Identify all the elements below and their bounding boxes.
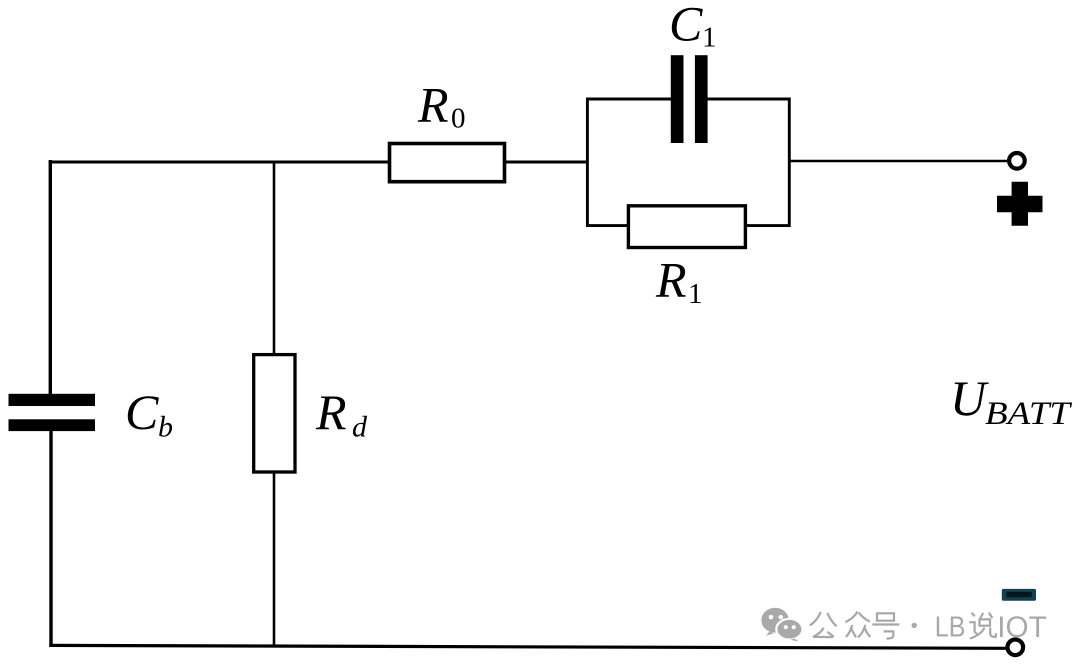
terminal negative (circle) — [1008, 640, 1024, 656]
svg-text:C: C — [669, 0, 703, 52]
watermark text IOT — [997, 611, 1047, 644]
svg-text:IOT: IOT — [997, 611, 1047, 644]
svg-text:BATT: BATT — [985, 396, 1073, 432]
label C1 — [669, 0, 717, 54]
label R0 — [417, 77, 466, 135]
label U_BATT — [950, 370, 1073, 432]
svg-text:U: U — [950, 370, 989, 426]
parallel group frame (C1 / R1 loop) — [587, 99, 789, 226]
resistor R1 — [628, 206, 745, 248]
label Cb — [125, 384, 173, 444]
wire bottom rail — [49, 645, 1008, 648]
minus sign (teal highlight) — [1002, 589, 1036, 601]
watermark glyph 众 — [845, 612, 870, 638]
watermark wechat logo — [761, 608, 802, 642]
watermark dot separator — [912, 623, 917, 628]
wire left vertical lower (Cb bottom plate to bottom rail) — [49, 431, 52, 647]
wire top-left horizontal (node A to R0) — [49, 160, 388, 163]
svg-text:R: R — [315, 384, 347, 440]
svg-text:b: b — [158, 411, 173, 444]
svg-text:R: R — [655, 252, 687, 308]
svg-text:1: 1 — [688, 278, 703, 310]
svg-text:LB: LB — [935, 612, 966, 644]
wire Rd branch lower — [273, 473, 276, 647]
wire Rd branch upper — [273, 162, 276, 354]
svg-text:1: 1 — [702, 22, 717, 54]
svg-text:d: d — [352, 411, 368, 444]
svg-text:R: R — [417, 77, 449, 133]
wire left vertical upper (to Cb top plate) — [49, 160, 52, 394]
resistor R0 — [390, 144, 505, 182]
label Rd — [315, 384, 368, 444]
resistor Rd — [254, 355, 295, 472]
terminal positive (circle) — [1009, 153, 1025, 169]
watermark text LB — [935, 612, 966, 644]
wire parallel group to positive terminal — [789, 160, 1008, 163]
capacitor Cb — [9, 394, 96, 431]
capacitor C1 — [671, 55, 708, 143]
wire R0 to parallel group — [506, 160, 588, 163]
watermark glyph 号 — [872, 613, 899, 638]
watermark glyph 说 — [969, 613, 996, 639]
svg-text:0: 0 — [451, 103, 466, 135]
label R1 — [655, 252, 703, 311]
watermark glyph 公 — [810, 612, 837, 637]
svg-text:C: C — [125, 384, 159, 440]
plus sign — [997, 182, 1043, 226]
